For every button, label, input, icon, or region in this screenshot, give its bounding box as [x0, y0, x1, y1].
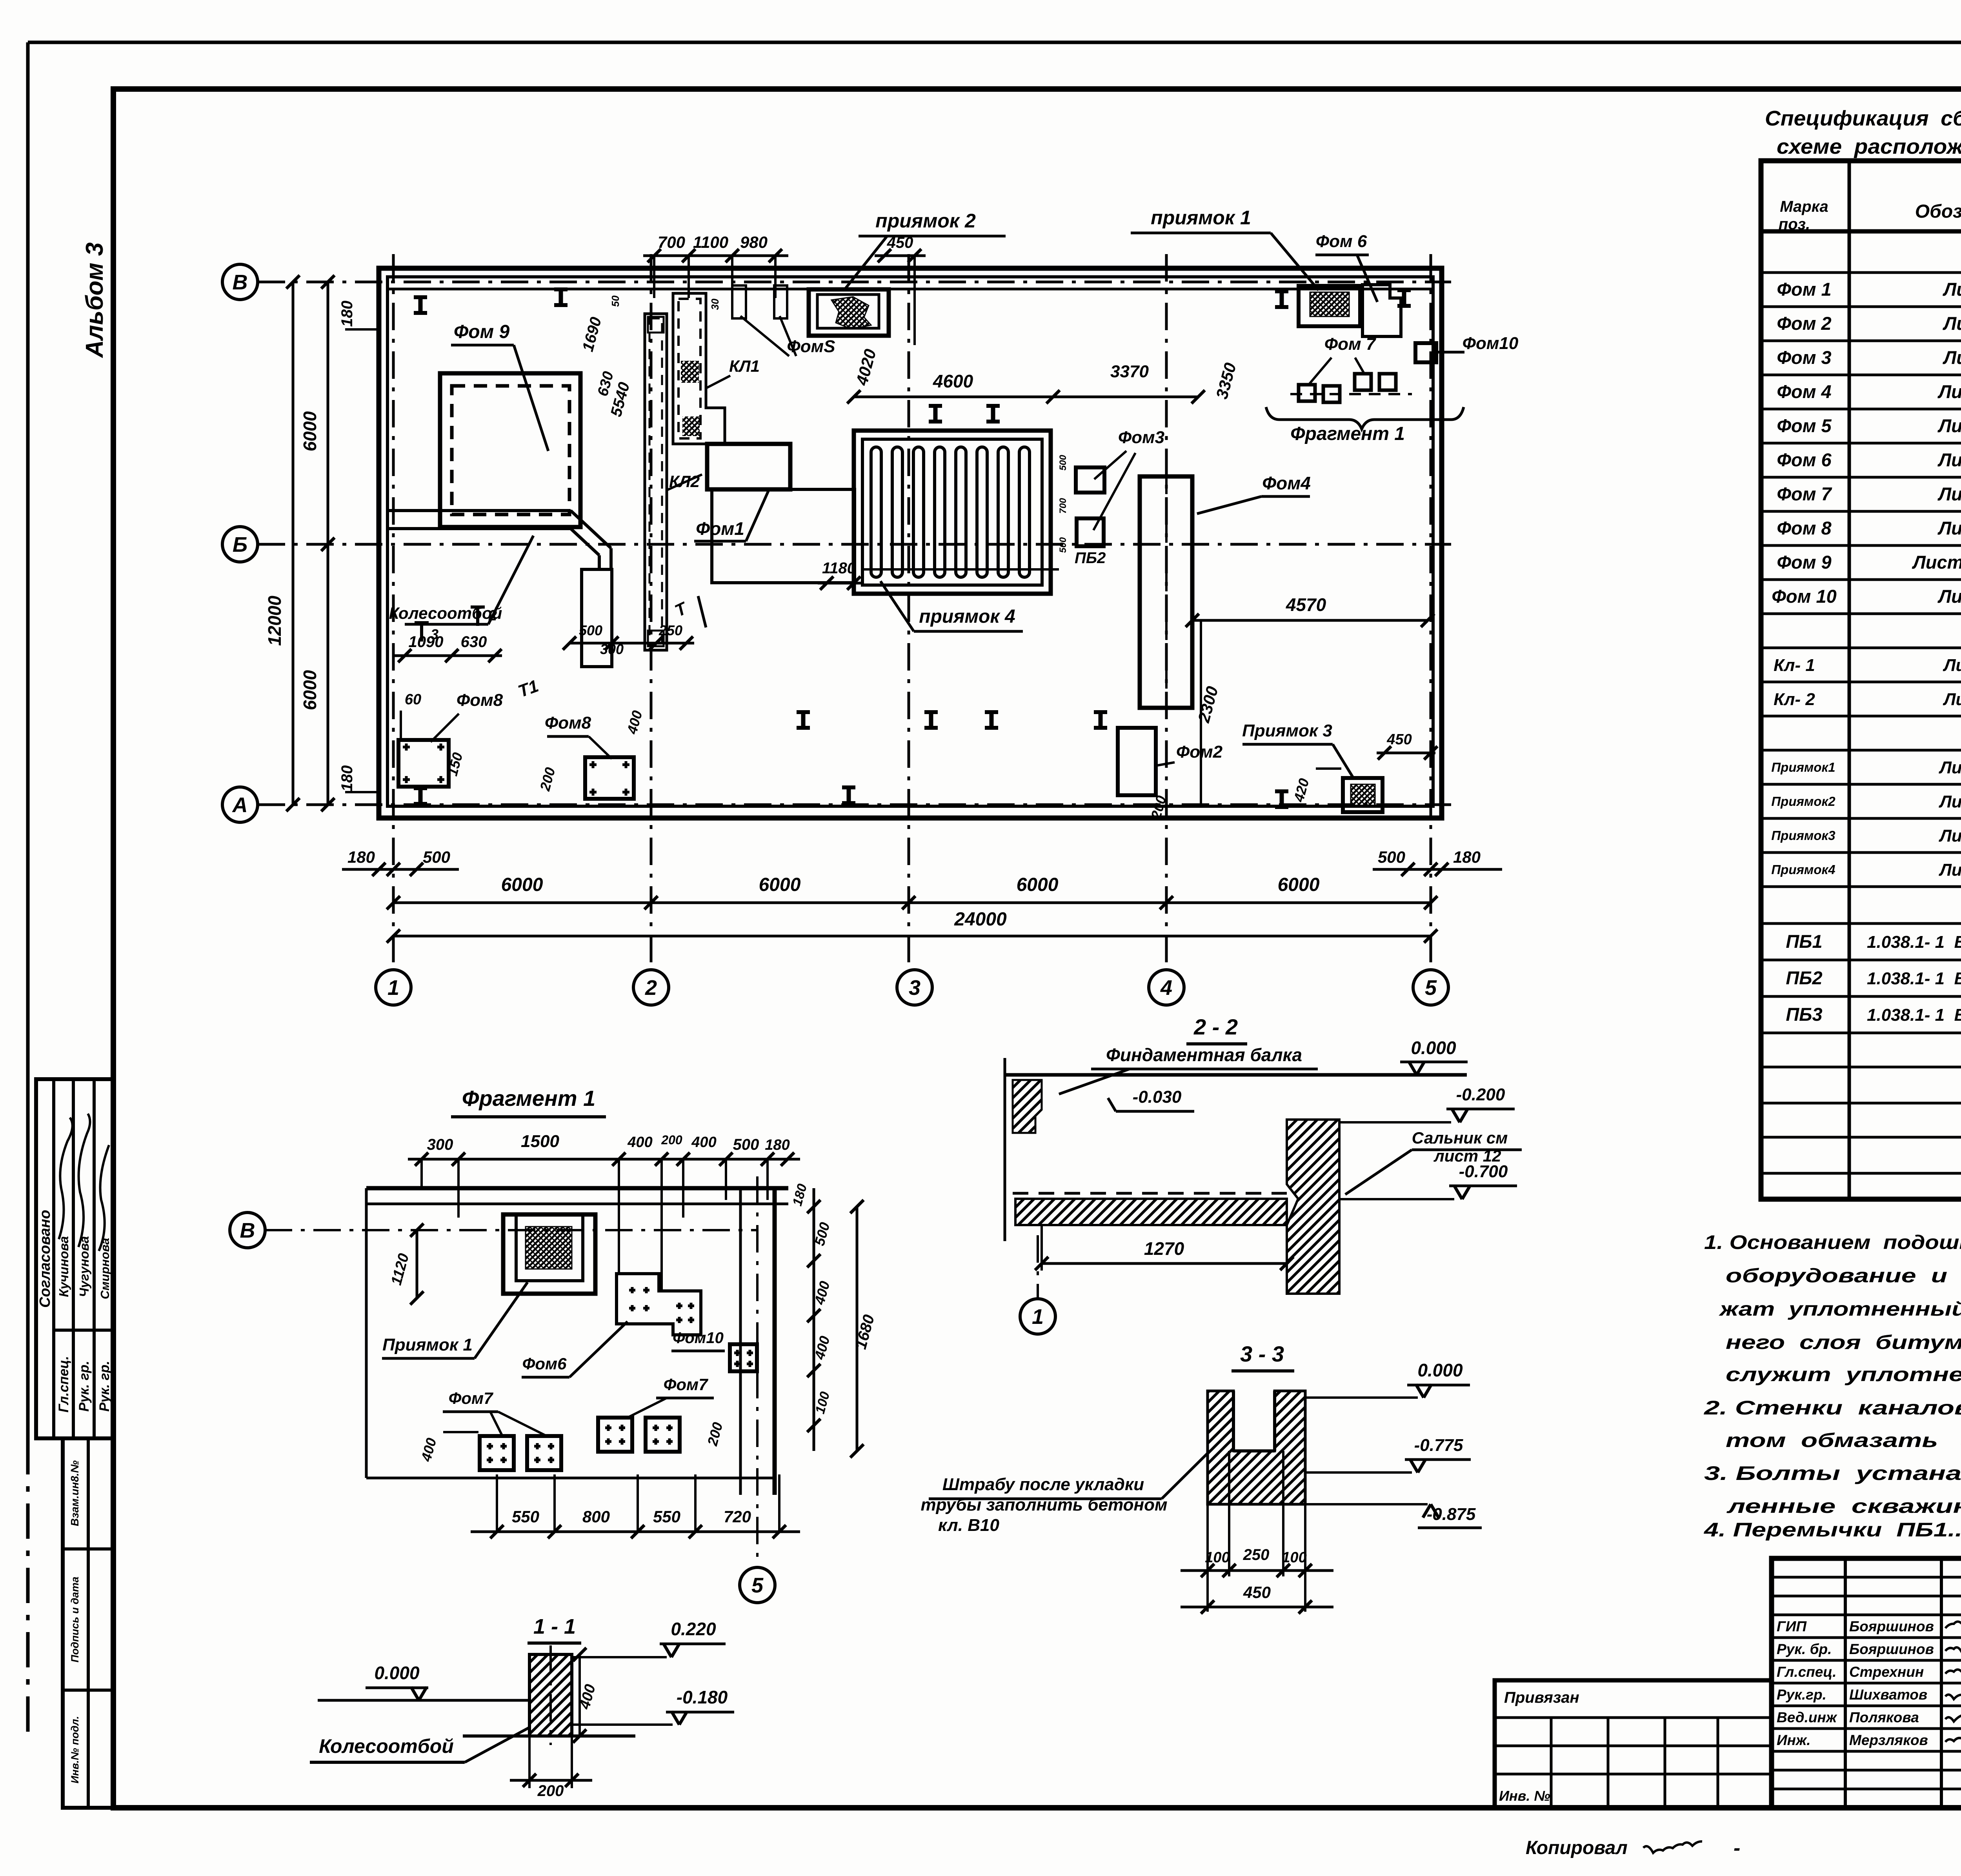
- svg-text:1: 1: [1032, 1305, 1044, 1329]
- svg-text:Колесоотбой: Колесоотбой: [389, 604, 502, 622]
- svg-text:Фом7: Фом7: [449, 1389, 494, 1407]
- svg-text:Приямок2: Приямок2: [1771, 794, 1835, 809]
- svg-text:Инв. №: Инв. №: [1499, 1788, 1550, 1804]
- svg-text:ПБ3: ПБ3: [1786, 1004, 1822, 1025]
- svg-text:1180: 1180: [822, 560, 856, 577]
- svg-text:4: 4: [1160, 976, 1172, 1000]
- svg-text:КЛ1: КЛ1: [729, 357, 760, 375]
- fragment ФОМ10: [730, 1344, 757, 1371]
- title block signatures: [1945, 1622, 1961, 1632]
- building inner wall: [387, 277, 1433, 806]
- svg-text:24000: 24000: [954, 909, 1007, 930]
- svg-text:30: 30: [709, 298, 721, 310]
- svg-text:5: 5: [1425, 976, 1437, 1000]
- dim 500 300 250: [569, 642, 694, 645]
- svg-text:Взам.ин8.№: Взам.ин8.№: [69, 1460, 81, 1526]
- svg-text:Фрагмент 1: Фрагмент 1: [462, 1086, 595, 1111]
- grid circle 2: [633, 970, 669, 1005]
- svg-text:200: 200: [537, 1782, 564, 1800]
- section 1-1 ground line: [318, 1699, 529, 1702]
- svg-text:Стрехнин: Стрехнин: [1849, 1664, 1924, 1680]
- svg-text:Полякова: Полякова: [1849, 1709, 1919, 1725]
- axis line В: [258, 281, 1451, 284]
- svg-text:Фом2: Фом2: [1176, 742, 1223, 762]
- svg-text:ленные скважины по получени: ленные скважины по получению оборудовани…: [1726, 1495, 1961, 1517]
- svg-text:Инж.: Инж.: [1777, 1732, 1810, 1748]
- svg-text:приямок 4: приямок 4: [919, 606, 1015, 627]
- svg-text:4. Перемычки ПБ1... ПБЗ зама: 4. Перемычки ПБ1... ПБЗ замаркированы на…: [1704, 1519, 1961, 1541]
- fragment ФОМ7 squares: [480, 1436, 514, 1470]
- svg-text:ГИП: ГИП: [1777, 1618, 1807, 1634]
- svg-text:кл. В10: кл. В10: [938, 1516, 999, 1535]
- fragment axis 5 line: [756, 1176, 759, 1565]
- svg-text:Приямок 1: Приямок 1: [382, 1335, 473, 1354]
- svg-text:Фом 1: Фом 1: [1777, 279, 1831, 300]
- svg-text:Приямок4: Приямок4: [1771, 862, 1835, 877]
- svg-text:2 - 2: 2 - 2: [1193, 1014, 1238, 1039]
- section 2-2 dim 1270: [1041, 1225, 1043, 1271]
- svg-text:Лист 10: Лист 10: [1937, 381, 1961, 402]
- title block left columns: [1844, 1558, 1847, 1808]
- svg-text:Фом7: Фом7: [664, 1375, 709, 1394]
- svg-text:2: 2: [488, 607, 497, 624]
- fragment outline: [366, 1186, 788, 1191]
- spec table grid: [1761, 161, 1961, 1199]
- foundation ФОМ9 dashed inner: [452, 386, 569, 514]
- section 2-2 right wall: [1287, 1120, 1339, 1294]
- fragment ФОМ6: [617, 1274, 701, 1335]
- canal Кл-1 outline: [673, 293, 725, 444]
- svg-text:Фом4: Фом4: [1262, 473, 1311, 493]
- svg-text:Лист 11: Лист 11: [1939, 792, 1961, 811]
- svg-text:Обозначение: Обозначение: [1915, 201, 1961, 222]
- svg-text:В: В: [233, 271, 248, 294]
- building outer wall: [379, 268, 1442, 818]
- svg-text:50: 50: [609, 295, 621, 307]
- svg-text:Фом 7: Фом 7: [1324, 334, 1377, 354]
- svg-text:300: 300: [600, 641, 624, 657]
- svg-text:100: 100: [1282, 1549, 1306, 1566]
- svg-text:700: 700: [1058, 498, 1068, 514]
- svg-text:том обмазать горячим битум: том обмазать горячим битумом за 2 раза: [1726, 1429, 1961, 1451]
- approval signatures: [59, 1118, 73, 1239]
- svg-text:1.038.1- 1 Вып. 1: 1.038.1- 1 Вып. 1: [1867, 969, 1961, 988]
- fragment top dims: [408, 1158, 800, 1161]
- svg-text:12000: 12000: [264, 596, 285, 646]
- svg-text:550: 550: [512, 1507, 539, 1526]
- axis line А: [258, 803, 1451, 806]
- fragment right dims: [813, 1188, 815, 1451]
- approval stamp box: [36, 1079, 113, 1438]
- svg-text:Фом 10: Фом 10: [1772, 586, 1837, 607]
- svg-text:Лист 9: Лист 9: [1943, 279, 1961, 300]
- axis line Б: [258, 543, 1451, 546]
- svg-text:Штрабу после укладки: Штрабу после укладки: [942, 1475, 1144, 1494]
- svg-text:500: 500: [733, 1136, 759, 1153]
- section 3-3 column: [1208, 1391, 1305, 1504]
- svg-text:1.038.1- 1 Вып. 1: 1.038.1- 1 Вып. 1: [1867, 933, 1961, 952]
- pit приямок 2 hatch: [831, 297, 871, 329]
- svg-text:Фом8: Фом8: [457, 691, 503, 710]
- svg-text:3 - 3: 3 - 3: [1240, 1342, 1284, 1366]
- svg-text:Финдаментная балка: Финдаментная балка: [1106, 1045, 1302, 1065]
- svg-text:Фом 8: Фом 8: [1777, 518, 1832, 538]
- column symbols: [418, 297, 423, 313]
- title block left rows: [1772, 1576, 1961, 1579]
- sheet outer border top: [28, 41, 1961, 44]
- dashed line фом7: [1290, 393, 1412, 395]
- inventory stamp box: [63, 1438, 113, 1808]
- svg-text:Фом3: Фом3: [1118, 428, 1164, 447]
- foundation ФОМ8 #1: [398, 740, 449, 787]
- svg-text:6000: 6000: [501, 874, 543, 895]
- svg-text:Фрагмент 1: Фрагмент 1: [1290, 424, 1405, 444]
- svg-text:180: 180: [347, 848, 375, 866]
- svg-text:250: 250: [659, 622, 682, 638]
- svg-text:0.220: 0.220: [671, 1619, 716, 1639]
- svg-text:180: 180: [338, 765, 356, 792]
- foundation ФОМ1: [707, 444, 790, 489]
- svg-text:Лист 9: Лист 9: [1943, 313, 1961, 334]
- svg-text:0.000: 0.000: [374, 1663, 420, 1683]
- svg-text:500: 500: [1058, 537, 1068, 553]
- grid circle В: [222, 264, 258, 300]
- pit приямок 3 hatch: [1351, 784, 1375, 805]
- svg-text:Лист 9: Лист 9: [1943, 347, 1961, 368]
- bottom dim 180-500 left: [342, 868, 459, 871]
- svg-text:6000: 6000: [1017, 874, 1059, 895]
- fragment left dim 1120: [416, 1230, 418, 1298]
- svg-text:-0.030: -0.030: [1133, 1087, 1182, 1107]
- svg-text:Подпись и дата: Подпись и дата: [69, 1577, 81, 1663]
- section 2-2 top line: [1005, 1073, 1467, 1077]
- canal pit below ФОМ1: [712, 489, 855, 583]
- pit приямок 4 outline: [854, 431, 1051, 594]
- svg-text:оборудование и монолитных д: оборудование и монолитных днищ каналов и…: [1726, 1265, 1961, 1287]
- svg-text:Приямок 3: Приямок 3: [1242, 721, 1332, 740]
- section 2-2 circle 1: [1037, 1235, 1039, 1299]
- foundation ФОМ6: [1363, 285, 1401, 336]
- svg-text:ПБ2: ПБ2: [1075, 549, 1106, 567]
- pit приямок 1 hatch: [1310, 292, 1349, 316]
- svg-text:5: 5: [751, 1574, 764, 1597]
- svg-text:Шихватов: Шихватов: [1849, 1687, 1927, 1703]
- svg-text:Мерзляков: Мерзляков: [1849, 1732, 1928, 1748]
- svg-text:Привязан: Привязан: [1504, 1689, 1579, 1706]
- foundation ФОМ10: [1415, 343, 1436, 362]
- svg-text:Вед.инж: Вед.инж: [1777, 1709, 1837, 1725]
- svg-text:3370: 3370: [1110, 362, 1149, 381]
- canal Кл-1 hatch blobs: [681, 361, 699, 383]
- svg-text:Лист 11: Лист 11: [1939, 826, 1961, 845]
- bottom dim chain 6000s: [393, 902, 1431, 904]
- svg-text:Фом 6: Фом 6: [1777, 449, 1832, 470]
- svg-text:-: -: [1734, 1837, 1740, 1860]
- svg-text:Альбом 3: Альбом 3: [81, 242, 108, 358]
- svg-text:служит уплотненный гравий: служит уплотненный гравий б = 100.: [1726, 1363, 1961, 1385]
- svg-text:Фом 2: Фом 2: [1777, 313, 1831, 334]
- wheel stop strip: [387, 509, 571, 512]
- svg-text:Фом6: Фом6: [522, 1354, 567, 1373]
- svg-text:Кл- 1: Кл- 1: [1774, 656, 1815, 675]
- svg-text:Рук. гр.: Рук. гр.: [76, 1361, 92, 1412]
- svg-text:ПБ1: ПБ1: [1786, 931, 1822, 952]
- section 1-1 dim 400: [578, 1654, 581, 1736]
- svg-text:А: А: [232, 793, 248, 817]
- svg-text:700: 700: [658, 233, 685, 251]
- axis line 1: [392, 254, 395, 969]
- foundation ФОМ4: [1140, 476, 1192, 708]
- canal Кл-2 end boxes: [648, 317, 664, 333]
- fragment bottom dims: [471, 1531, 800, 1533]
- sheet outer border left: [26, 42, 30, 1439]
- svg-text:Приямок1: Приямок1: [1771, 760, 1835, 774]
- svg-text:Фом 9: Фом 9: [1777, 552, 1831, 573]
- svg-text:Рук. гр.: Рук. гр.: [97, 1361, 112, 1412]
- fragment extension lines: [420, 1159, 423, 1188]
- svg-text:550: 550: [653, 1507, 680, 1526]
- svg-text:400: 400: [691, 1134, 716, 1151]
- svg-text:Фом10: Фом10: [673, 1329, 724, 1347]
- svg-text:180: 180: [765, 1137, 789, 1153]
- svg-text:поз.: поз.: [1779, 216, 1810, 233]
- canal Кл-1 inner dashed: [679, 299, 700, 438]
- svg-text:0.000: 0.000: [1411, 1038, 1456, 1058]
- rotated dim 2300: [1200, 622, 1202, 805]
- bottom dim 500-180 right: [1373, 868, 1502, 871]
- svg-text:Б: Б: [233, 533, 247, 556]
- pit приямок 1 outline: [1299, 286, 1360, 326]
- svg-text:Гл.спец.: Гл.спец.: [56, 1356, 71, 1412]
- grid circle А: [222, 787, 258, 822]
- svg-text:180: 180: [338, 301, 356, 327]
- svg-text:1100: 1100: [693, 233, 728, 251]
- svg-text:жат уплотненный гравий до γ: жат уплотненный гравий до γск = 1,6 ÷ 1,…: [1718, 1298, 1961, 1320]
- svg-text:1500: 1500: [521, 1132, 559, 1151]
- svg-text:приямок 2: приямок 2: [875, 210, 976, 232]
- svg-text:3. Болты устанавливать на э: 3. Болты устанавливать на эпоксидном кле…: [1704, 1462, 1961, 1484]
- bottom dim chain 24000: [393, 935, 1431, 938]
- svg-text:-0.775: -0.775: [1414, 1436, 1463, 1455]
- svg-text:Приямок3: Приямок3: [1771, 828, 1835, 843]
- svg-text:1 - 1: 1 - 1: [533, 1615, 576, 1638]
- section 1-1 curb: [529, 1654, 572, 1736]
- svg-text:Фом 5: Фом 5: [1777, 415, 1832, 436]
- left dim chain 6000+6000: [327, 282, 329, 805]
- svg-text:Сальник см: Сальник см: [1412, 1129, 1508, 1147]
- foundation ФОМ7 squares: [1299, 385, 1315, 401]
- svg-text:Гл.спец.: Гл.спец.: [1777, 1664, 1837, 1680]
- axis line 5: [1430, 254, 1432, 969]
- grid circle 5: [1413, 970, 1448, 1005]
- svg-text:Фом1: Фом1: [696, 518, 744, 539]
- svg-text:Колесоотбой: Колесоотбой: [319, 1735, 454, 1757]
- svg-text:800: 800: [582, 1507, 610, 1526]
- svg-text:6000: 6000: [1278, 874, 1320, 895]
- svg-text:Лист 10: Лист 10: [1937, 586, 1961, 607]
- svg-text:Бояршинов: Бояршинов: [1849, 1641, 1934, 1657]
- section 2-2 left hatched block: [1013, 1080, 1042, 1133]
- svg-text:Лист 9: Лист 9: [1943, 656, 1961, 675]
- svg-text:500: 500: [1378, 848, 1405, 866]
- section 2-2 dashed waterline: [1013, 1192, 1287, 1195]
- svg-text:Лист 10: Лист 10: [1937, 415, 1961, 436]
- svg-text:1.038.1- 1 Вып. 1: 1.038.1- 1 Вып. 1: [1867, 1005, 1961, 1025]
- grid circle 1: [376, 970, 411, 1005]
- lintel line ПБ2: [862, 568, 1059, 571]
- svg-text:Марка: Марка: [1780, 198, 1828, 215]
- svg-text:4570: 4570: [1286, 594, 1326, 615]
- grid circle 3: [897, 970, 932, 1005]
- svg-text:Фом 4: Фом 4: [1777, 381, 1831, 402]
- axis line 4: [1165, 254, 1168, 969]
- svg-text:приямок 1: приямок 1: [1151, 207, 1251, 229]
- svg-text:450: 450: [1386, 731, 1412, 748]
- section 1-1 dim 200: [528, 1736, 531, 1788]
- svg-text:Фом8: Фом8: [545, 713, 591, 733]
- svg-text:3: 3: [909, 976, 920, 1000]
- canal Кл-2 inner dashed: [649, 318, 662, 645]
- axis line 3: [908, 254, 910, 969]
- svg-text:Рук. бр.: Рук. бр.: [1777, 1641, 1832, 1657]
- grid circle 4: [1149, 970, 1184, 1005]
- foundation ФОМ5 pieces: [732, 285, 746, 318]
- svg-text:720: 720: [724, 1507, 751, 1526]
- svg-text:100: 100: [1205, 1549, 1230, 1566]
- grid circle Б: [222, 527, 258, 562]
- top dim 700 1100 980: [643, 254, 788, 257]
- svg-text:Кл- 2: Кл- 2: [1774, 690, 1815, 709]
- pit приямок 2 outline: [809, 289, 889, 336]
- svg-text:2. Стенки каналов и приямко: 2. Стенки каналов и приямков, соприкасаю…: [1704, 1397, 1961, 1419]
- svg-text:1. Основанием подошвы монол: 1. Основанием подошвы монолитных фундаме…: [1704, 1231, 1961, 1253]
- foundation ФОМ3 blocks: [1076, 467, 1104, 493]
- section 2-2 left break line: [1004, 1058, 1006, 1241]
- svg-text:180: 180: [1453, 848, 1481, 866]
- svg-text:Лист 12,13,14: Лист 12,13,14: [1912, 552, 1961, 573]
- svg-text:980: 980: [740, 233, 768, 251]
- foundation ФОМ8 #2: [585, 757, 634, 799]
- svg-text:Лист 10: Лист 10: [1937, 484, 1961, 504]
- svg-text:ПБ2: ПБ2: [1786, 967, 1822, 988]
- svg-text:Кучинова: Кучинова: [56, 1236, 71, 1297]
- binding box: [1495, 1680, 1772, 1808]
- canal Кл-2 outline: [645, 314, 667, 650]
- svg-text:450: 450: [1243, 1583, 1271, 1602]
- svg-text:1270: 1270: [1144, 1238, 1184, 1259]
- svg-text:200: 200: [661, 1133, 682, 1147]
- svg-text:4600: 4600: [933, 371, 973, 391]
- svg-text:500: 500: [579, 622, 602, 638]
- svg-text:3: 3: [431, 626, 438, 642]
- fragment 1 brace: [1266, 407, 1464, 429]
- section 3-3 bottom dims: [1206, 1504, 1209, 1612]
- pit приямок 3 outline: [1343, 778, 1383, 812]
- title block outline: [1772, 1558, 1961, 1808]
- svg-text:6000: 6000: [300, 411, 320, 451]
- svg-text:630: 630: [461, 633, 487, 651]
- left dim chain 12000: [292, 282, 295, 805]
- svg-text:1: 1: [387, 976, 399, 1000]
- foundation ФОМ9 outline: [440, 373, 580, 527]
- svg-text:Бояршинов: Бояршинов: [1849, 1618, 1934, 1634]
- svg-text:-0.180: -0.180: [677, 1687, 728, 1707]
- svg-text:300: 300: [427, 1136, 453, 1153]
- svg-text:Фом 3: Фом 3: [1777, 347, 1831, 368]
- svg-text:6000: 6000: [300, 670, 320, 710]
- svg-text:Фом10: Фом10: [1463, 334, 1519, 353]
- svg-text:400: 400: [627, 1134, 652, 1151]
- svg-text:-0.700: -0.700: [1459, 1162, 1508, 1181]
- dim 4570: [1192, 619, 1428, 622]
- section 2-2 bottom slab: [1015, 1199, 1287, 1225]
- svg-text:Лист 9: Лист 9: [1943, 690, 1961, 709]
- pit приямок 4 slots: [871, 447, 881, 577]
- fragment right wall: [739, 1188, 742, 1495]
- svg-text:Лист 11: Лист 11: [1939, 758, 1961, 777]
- svg-text:Спецификация сборных и моно: Спецификация сборных и монолитных констр…: [1765, 107, 1961, 130]
- svg-text:него слоя битумом, основание: него слоя битумом, основанием сборных ло…: [1726, 1331, 1961, 1353]
- svg-text:схеме расположения подземног: схеме расположения подземного хозяйства: [1777, 135, 1961, 158]
- svg-text:Лист 11: Лист 11: [1939, 860, 1961, 880]
- svg-text:500: 500: [1058, 454, 1068, 471]
- svg-text:6000: 6000: [759, 874, 801, 895]
- svg-text:0.000: 0.000: [1417, 1360, 1463, 1380]
- svg-text:-0.200: -0.200: [1456, 1085, 1505, 1104]
- svg-text:250: 250: [1243, 1546, 1270, 1563]
- svg-text:Фом 6: Фом 6: [1316, 232, 1367, 251]
- svg-text:Лист 10: Лист 10: [1937, 518, 1961, 538]
- svg-text:В: В: [240, 1219, 255, 1242]
- fragment pit приямок1: [503, 1214, 595, 1294]
- wheel stop end block: [582, 569, 612, 667]
- fragment axis В: [265, 1229, 757, 1231]
- svg-text:60: 60: [405, 691, 421, 708]
- section 1-1 base line: [463, 1734, 635, 1738]
- dim 4600 3370: [854, 396, 1198, 398]
- fragment dim 1680: [856, 1207, 859, 1451]
- svg-text:Рук.гр.: Рук.гр.: [1777, 1687, 1826, 1703]
- svg-text:2: 2: [645, 976, 657, 1000]
- svg-text:500: 500: [423, 848, 450, 866]
- fragment circle 5: [740, 1567, 775, 1603]
- axis line 2: [650, 254, 653, 969]
- svg-text:Инв.№ подл.: Инв.№ подл.: [69, 1716, 81, 1783]
- svg-text:Фом 9: Фом 9: [454, 322, 510, 342]
- building floor edge line: [387, 288, 1433, 291]
- svg-text:Копировал: Копировал: [1526, 1838, 1628, 1858]
- svg-text:Лист 10: Лист 10: [1937, 449, 1961, 470]
- svg-text:Согласовано: Согласовано: [37, 1210, 53, 1308]
- foundation ФОМ2: [1118, 728, 1156, 795]
- svg-text:Фом 7: Фом 7: [1777, 484, 1832, 504]
